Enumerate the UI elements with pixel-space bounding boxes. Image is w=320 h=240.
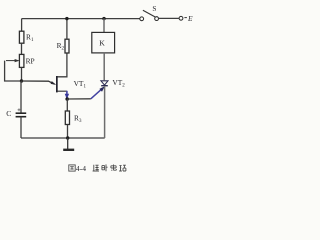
wire base-1 blue arrow down bbox=[65, 91, 69, 99]
延时电路 pseudo-glyphs bbox=[93, 165, 99, 171]
wire capacitor to bottom rail bbox=[20, 117, 22, 138]
node rail-R2 junction bbox=[65, 17, 68, 20]
wire thyristor cathode down bbox=[104, 86, 106, 138]
node rail-K junction bbox=[102, 17, 105, 20]
node bottom-rail junction bbox=[66, 136, 69, 139]
wire gate blue diagonal bbox=[91, 86, 105, 99]
relay K bbox=[92, 32, 115, 53]
wire emitter lead from node A bbox=[22, 81, 55, 84]
wire R3 to bottom rail bbox=[67, 125, 69, 139]
wire rail to relay K bbox=[103, 19, 105, 33]
wire left branch top bbox=[21, 19, 23, 32]
图 bbox=[69, 165, 75, 171]
switch S bbox=[140, 5, 159, 20]
node supply terminal E bbox=[179, 14, 193, 23]
capacitor C bbox=[6, 108, 26, 118]
svg-text:S: S bbox=[152, 5, 156, 13]
resistor R1 bbox=[19, 31, 34, 43]
wire top rail bbox=[22, 18, 140, 20]
thyristor VT2 bbox=[101, 78, 125, 89]
wire switch to supply terminal bbox=[159, 17, 179, 19]
resistor R2 bbox=[57, 39, 69, 53]
wire K to thyristor anode bbox=[103, 53, 105, 80]
svg-text:4-4: 4-4 bbox=[76, 164, 86, 173]
svg-text:RP: RP bbox=[26, 57, 35, 66]
ground bbox=[63, 138, 74, 150]
wire base-1 of VT1 bbox=[58, 90, 67, 92]
node A junction bbox=[20, 79, 23, 82]
wire node B to R3 bbox=[66, 99, 68, 111]
svg-text:C: C bbox=[6, 109, 11, 118]
potentiometer RP bbox=[6, 54, 35, 67]
node B junction bbox=[65, 97, 69, 101]
wire base-2 of VT1 up to R2 bbox=[58, 53, 67, 77]
svg-text:K: K bbox=[99, 39, 105, 48]
wire RP wiper loop bbox=[5, 61, 22, 81]
svg-text:E: E bbox=[187, 14, 193, 23]
wire R1 to RP bbox=[21, 43, 23, 54]
wire node to capacitor bbox=[20, 81, 22, 113]
transistor VT1 (UJT) bbox=[56, 76, 86, 92]
wire R2 top to rail bbox=[66, 18, 68, 39]
wire bottom rail bbox=[21, 137, 105, 139]
wire gate lead bbox=[67, 98, 91, 100]
caption 图4-4 延时电路 bbox=[69, 164, 126, 171]
wire RP bottom to node bbox=[21, 67, 23, 81]
resistor R3 bbox=[65, 111, 82, 125]
